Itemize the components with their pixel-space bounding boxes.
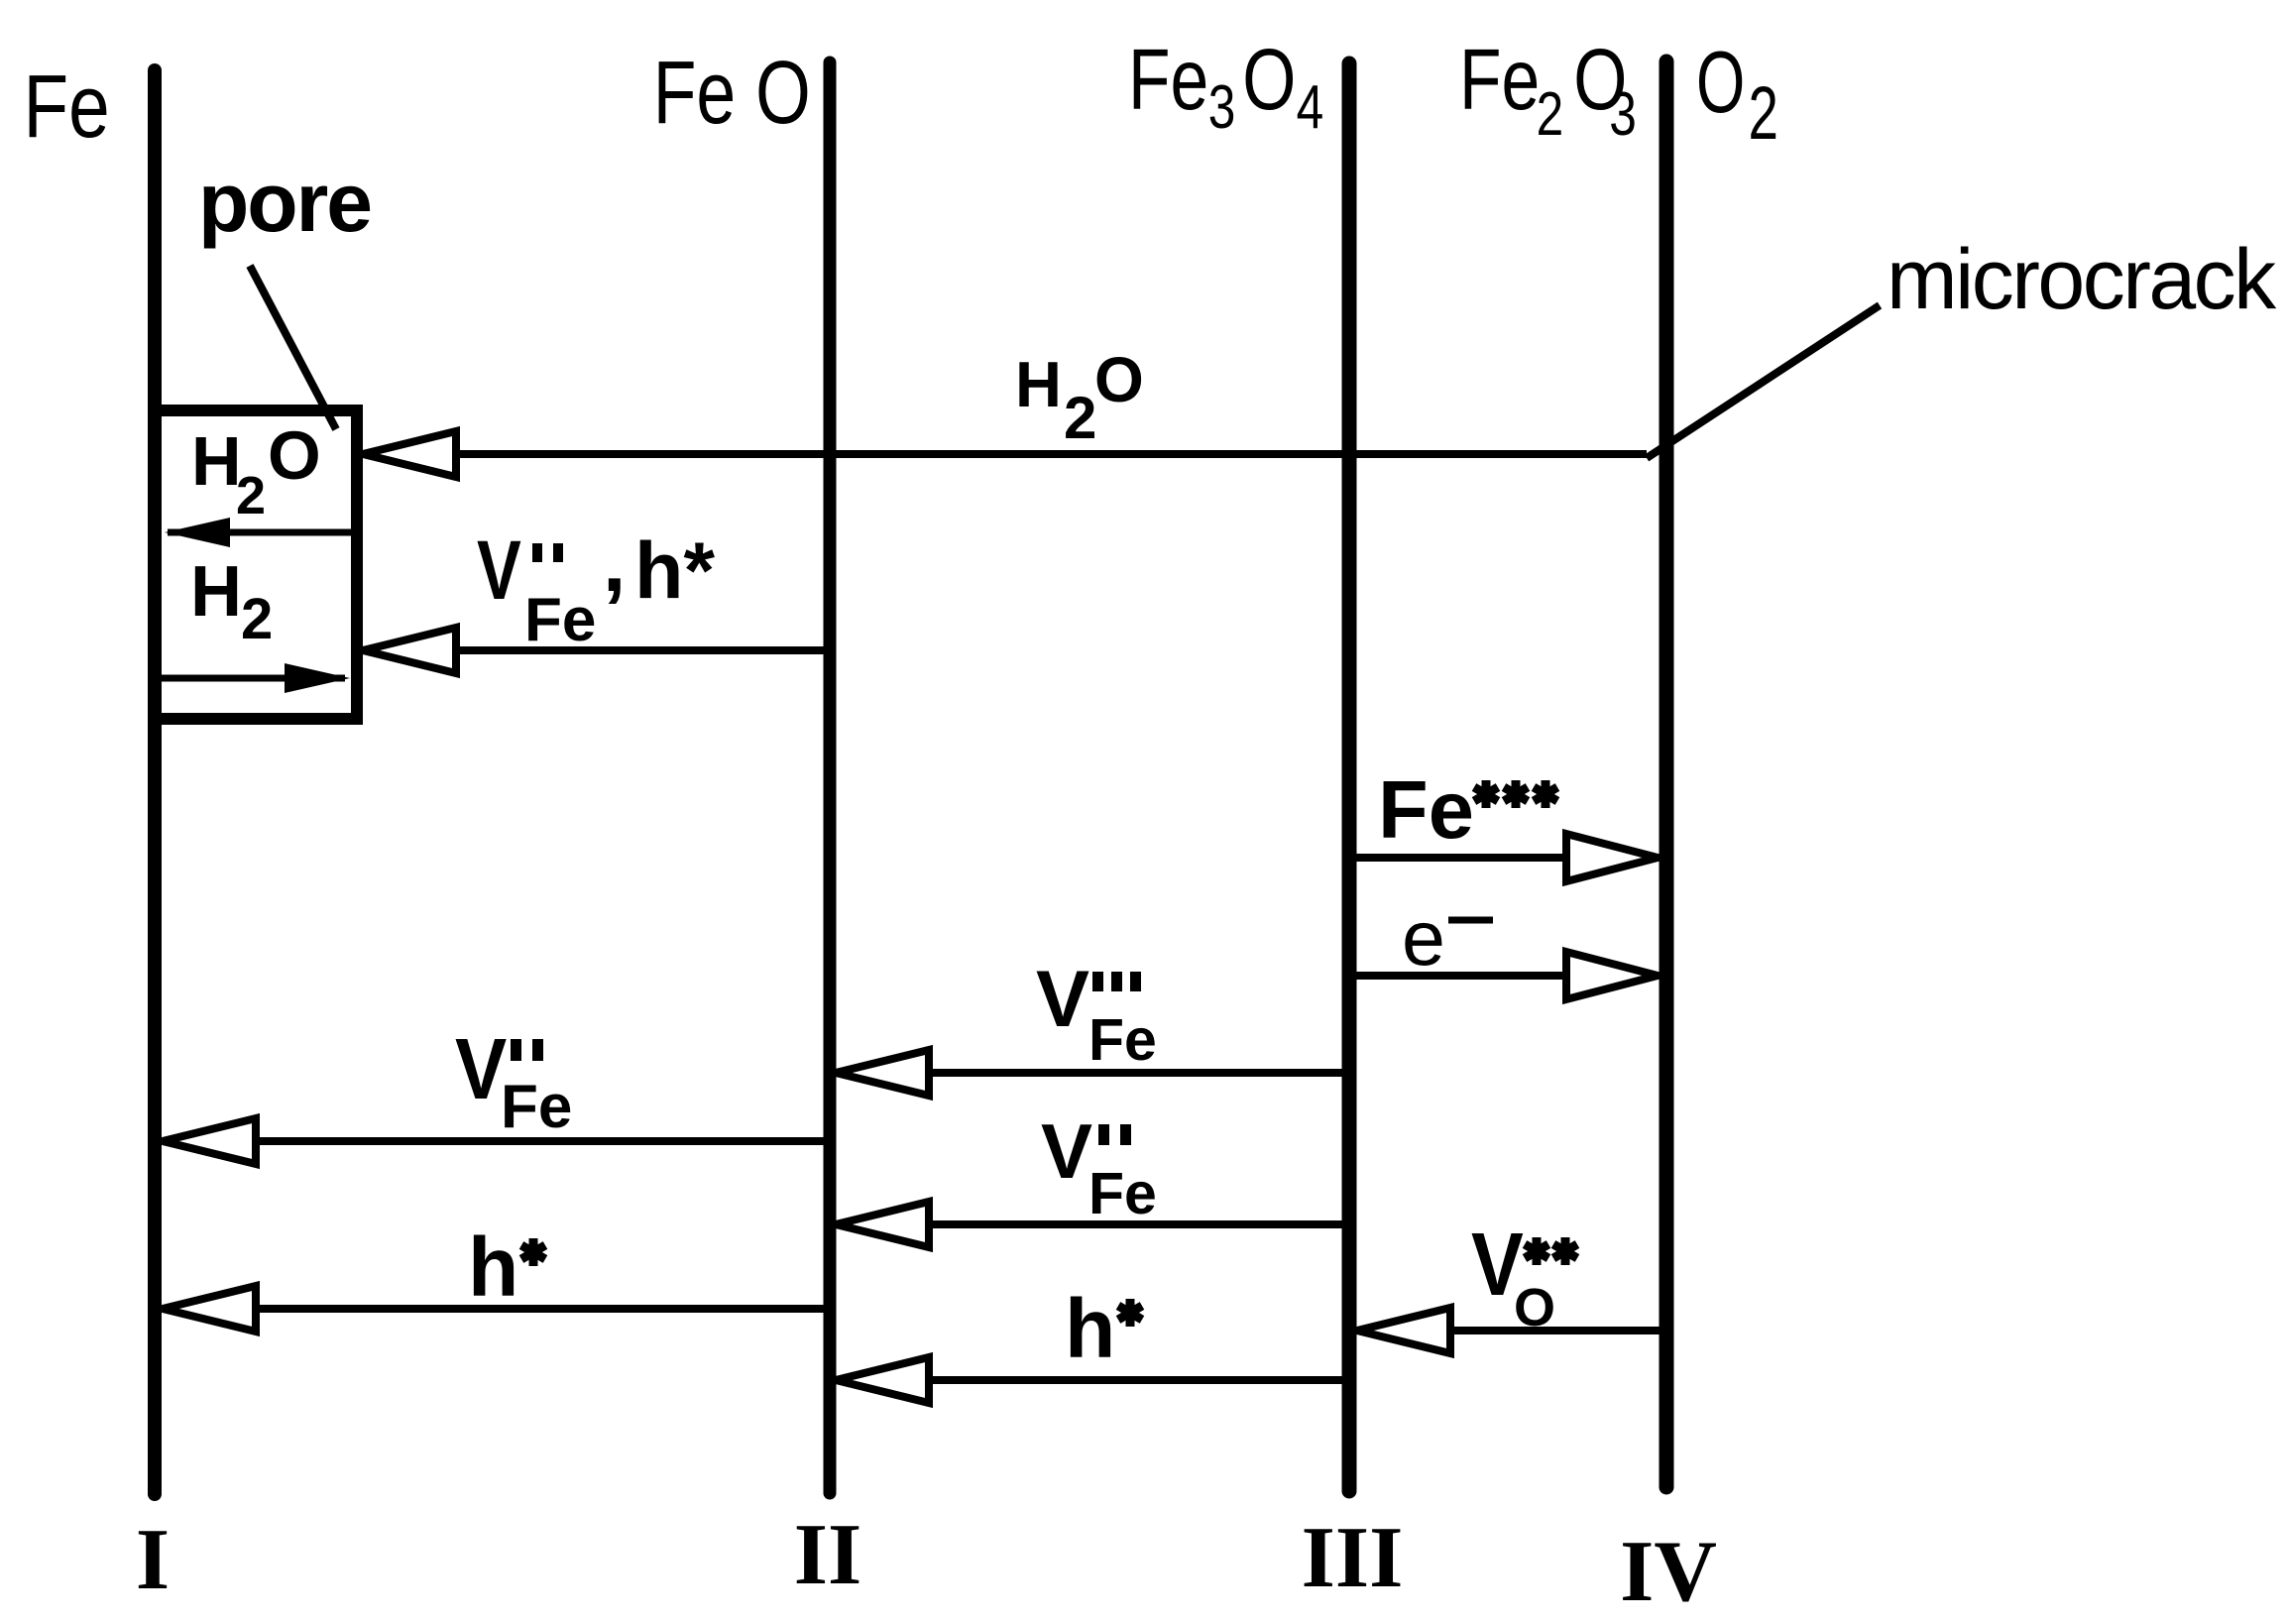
phase boundary line II (FeO | Fe3O4): [824, 62, 837, 1493]
wire H2O return into Fe (divider): [168, 529, 355, 536]
svg-text:H: H: [190, 552, 242, 632]
svg-text:e: e: [1402, 893, 1445, 982]
open arrowhead h* at I: [163, 1286, 256, 1332]
wire e- from III to IV: [1349, 972, 1656, 980]
svg-text:O: O: [1696, 35, 1745, 132]
wire V'''Fe from III to II: [836, 1069, 1349, 1077]
svg-text:3: 3: [1208, 72, 1236, 142]
open arrowhead e- at IV: [1566, 952, 1658, 999]
wire h* from III to II: [836, 1376, 1349, 1384]
svg-text:Fe: Fe: [1128, 32, 1208, 128]
svg-text:Fe: Fe: [1459, 32, 1540, 128]
label V''Fe (FeO layer): [455, 1020, 572, 1141]
label O2 (oxygen gas phase): [1696, 35, 1778, 156]
label H2O inside pore: [191, 417, 321, 525]
svg-text:4: 4: [1297, 72, 1324, 142]
wire Fe*** from III to IV: [1349, 854, 1656, 862]
open arrowhead V''Fe,h* at pore: [363, 628, 456, 673]
svg-text:II: II: [794, 1507, 862, 1603]
svg-text:h: h: [468, 1220, 518, 1314]
svg-text:2: 2: [236, 466, 266, 525]
svg-text:H: H: [191, 422, 242, 500]
open arrowhead H2O at pore: [363, 431, 456, 477]
label V**O (oxygen vacancies): [1471, 1214, 1577, 1337]
pore box: [155, 410, 357, 719]
svg-text:O: O: [1094, 344, 1144, 415]
svg-text:V: V: [1036, 955, 1089, 1044]
wire V''Fe from II to I: [163, 1137, 830, 1145]
open arrowhead V'''Fe at II: [836, 1050, 929, 1096]
svg-text:2: 2: [1749, 71, 1778, 156]
wire V''Fe,h* from II to pore: [363, 646, 824, 654]
svg-text:O: O: [1242, 32, 1296, 128]
label V''Fe , h* (FeO transport): [477, 516, 715, 654]
phase boundary line IV (Fe2O3 | O2): [1660, 61, 1674, 1487]
svg-text:3: 3: [1609, 79, 1637, 149]
wire H2 out of Fe: [161, 675, 345, 682]
svg-text:Fe O: Fe O: [653, 43, 811, 143]
label Fe3O4 (magnetite phase): [1128, 32, 1323, 142]
svg-text:2: 2: [1537, 79, 1564, 149]
svg-text:Fe: Fe: [1378, 763, 1474, 856]
open arrowhead Fe*** at IV: [1566, 834, 1658, 881]
label Fe (metal phase): [24, 56, 110, 156]
label V'''Fe: [1036, 955, 1157, 1073]
label Fe***: [1378, 763, 1557, 856]
svg-text:O: O: [268, 417, 321, 494]
open arrowhead V**O at III: [1357, 1308, 1450, 1353]
svg-text:2: 2: [241, 587, 273, 651]
svg-text:V: V: [1041, 1107, 1092, 1195]
wire H2O from microcrack to pore: [363, 450, 1647, 458]
filled arrowhead H2 toward pore: [285, 663, 350, 693]
svg-text:h*: h*: [634, 526, 715, 616]
svg-text:h: h: [1065, 1282, 1115, 1375]
svg-text:pore: pore: [198, 156, 371, 249]
filled arrowhead H2O into Fe: [165, 518, 230, 547]
svg-text:H: H: [1015, 348, 1062, 420]
wire h* from II to I: [163, 1305, 830, 1313]
label V''Fe (Fe3O4 to FeO): [1041, 1107, 1157, 1226]
superscript minus of e-: [1448, 917, 1493, 924]
svg-text:Fe: Fe: [1088, 1007, 1157, 1073]
phase boundary line I (Fe | FeO): [148, 70, 162, 1494]
label H2 inside pore: [190, 552, 273, 651]
label H2O (transport through scale): [1015, 344, 1144, 451]
svg-text:2: 2: [1064, 385, 1096, 451]
wire V''Fe from III to II: [836, 1220, 1349, 1228]
microcrack leader line: [1647, 305, 1880, 458]
svg-text:microcrack: microcrack: [1887, 232, 2277, 327]
svg-text:V: V: [455, 1020, 507, 1117]
svg-text:,: ,: [603, 516, 626, 609]
svg-text:III: III: [1302, 1510, 1404, 1606]
svg-text:V: V: [477, 524, 521, 618]
label Fe2O3 (hematite phase): [1459, 32, 1637, 149]
open arrowhead V''Fe at II: [836, 1202, 929, 1247]
pore leader line: [250, 266, 336, 429]
svg-text:Fe: Fe: [524, 586, 596, 654]
svg-text:I: I: [136, 1512, 170, 1608]
phase boundary line III (Fe3O4 | Fe2O3): [1342, 63, 1357, 1491]
svg-text:Fe: Fe: [501, 1073, 572, 1141]
svg-text:IV: IV: [1620, 1524, 1717, 1620]
open arrowhead V''Fe at I: [163, 1118, 256, 1164]
open arrowhead h* at II: [836, 1357, 929, 1403]
label Fe O (wustite phase): [653, 43, 811, 143]
svg-text:Fe: Fe: [24, 56, 110, 156]
wire V**O from IV to III: [1357, 1327, 1666, 1334]
label h* (FeO layer holes): [468, 1220, 545, 1314]
label h* (Fe3O4 layer holes): [1065, 1282, 1142, 1375]
svg-text:Fe: Fe: [1088, 1161, 1157, 1226]
